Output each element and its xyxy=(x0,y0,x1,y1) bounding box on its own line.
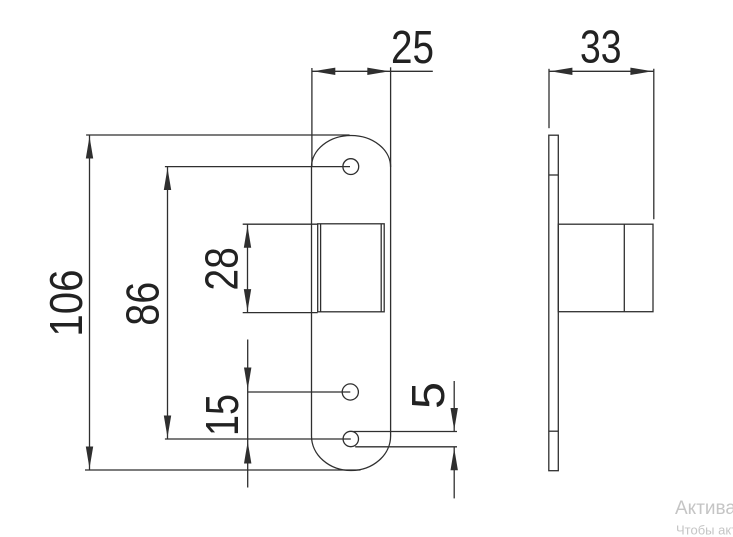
svg-text:106: 106 xyxy=(40,270,92,337)
svg-text:Чтобы активировать Windows, пе: Чтобы активировать Windows, перейдите в … xyxy=(676,523,733,537)
svg-text:15: 15 xyxy=(196,394,248,436)
svg-text:28: 28 xyxy=(196,247,248,291)
svg-text:Активация Windows: Активация Windows xyxy=(675,498,733,519)
svg-text:33: 33 xyxy=(580,20,622,72)
svg-text:5: 5 xyxy=(402,382,454,409)
svg-text:86: 86 xyxy=(117,282,169,326)
svg-text:25: 25 xyxy=(391,21,434,73)
